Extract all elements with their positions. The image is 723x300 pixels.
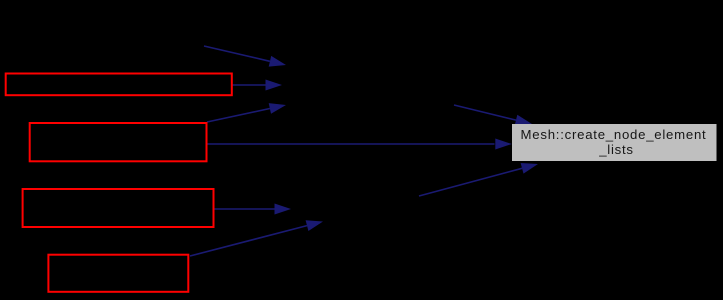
edge caller box2 to mid node [207,103,286,122]
edge caller box2 to Mesh::create_node_element_lists [208,139,512,150]
edge mid node to Mesh::create_node_element_lists [454,105,532,125]
svg-text:_lists: _lists [598,142,634,157]
edge caller box3 to mid node2 [215,204,292,215]
edge caller box4 to mid node2 [190,220,323,256]
caller node box4 (red, two lines) [48,255,188,292]
caller node box3 (red, two lines) [23,189,214,227]
current node Mesh::create_node_element_lists (gray) [512,124,717,161]
edge caller box1 to mid node [233,80,283,91]
caller node box1 (red, single line) [6,74,232,96]
svg-text:Mesh::create_node_element: Mesh::create_node_element [521,127,707,142]
caller node box2 (red, two lines) [30,123,207,161]
edge hidden caller to mid node (top) [204,46,286,67]
edge mid node2 to Mesh::create_node_element_lists [419,163,538,196]
